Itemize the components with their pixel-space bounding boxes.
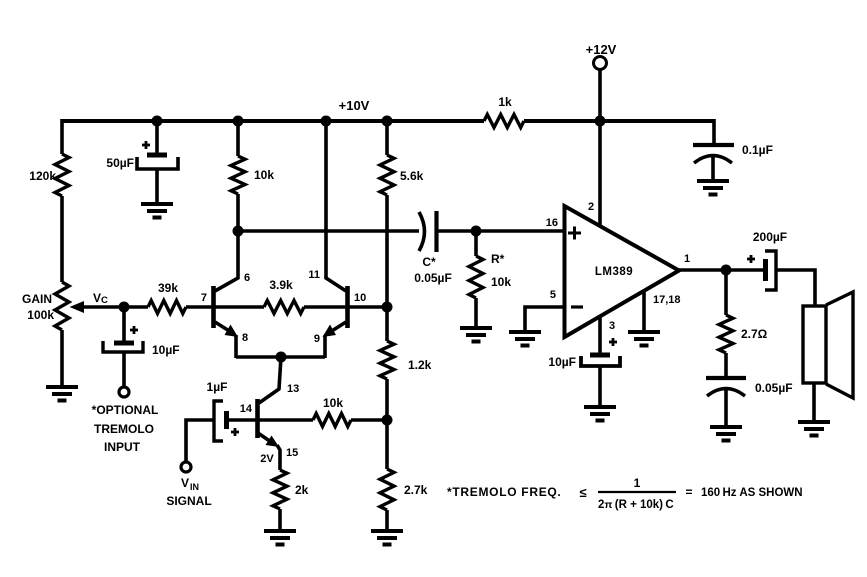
svg-text:+10V: +10V: [339, 98, 370, 113]
svg-text:0.05µF: 0.05µF: [755, 381, 793, 395]
svg-text:*TREMOLO FREQ.: *TREMOLO FREQ.: [447, 485, 561, 499]
svg-text:10k: 10k: [323, 396, 343, 410]
svg-text:2k: 2k: [295, 483, 309, 497]
svg-text:6: 6: [244, 272, 250, 284]
wire node to Q3 collector: [259, 357, 281, 403]
capacitor 1uF: [207, 380, 239, 441]
svg-text:50µF: 50µF: [106, 156, 134, 170]
node Q2 base / 5.6k-1.2k junction: [382, 302, 393, 313]
label pin 10: [354, 292, 366, 304]
wire Q1 base to 3.9k: [215, 305, 264, 309]
node rail/5.6k: [382, 116, 393, 127]
label INPUT: [104, 440, 141, 454]
resistor 1k: [484, 95, 524, 128]
node VC: [93, 291, 130, 313]
capacitor 0.05uF (zobel): [706, 378, 793, 396]
label pin 13: [287, 383, 299, 395]
svg-text:39k: 39k: [158, 281, 178, 295]
svg-text:15: 15: [286, 447, 298, 459]
svg-text:5: 5: [550, 289, 556, 301]
svg-text:13: 13: [287, 383, 299, 395]
svg-text:2V: 2V: [260, 453, 274, 465]
wire +10V top rail left segment: [62, 119, 484, 123]
wire top rail right segment: [524, 119, 714, 123]
svg-text:3: 3: [609, 320, 615, 332]
wire pin 3: [598, 316, 602, 353]
wire 10k to node: [236, 194, 240, 231]
wire 5.6k to base node: [385, 195, 389, 307]
label pin 2: [588, 201, 594, 213]
svg-text:*OPTIONAL: *OPTIONAL: [92, 403, 159, 417]
label pin 9: [314, 333, 320, 345]
node rail/Q2 collector: [321, 116, 332, 127]
label pin 7: [201, 292, 207, 304]
label pin 17,18: [653, 294, 681, 306]
svg-text:SIGNAL: SIGNAL: [166, 494, 211, 508]
wire node to pin 16: [476, 229, 564, 233]
capacitor 50uF: [106, 141, 178, 170]
svg-text:TREMOLO: TREMOLO: [94, 422, 154, 436]
label TREMOLO: [94, 422, 154, 436]
label *OPTIONAL: [92, 403, 159, 417]
capacitor 0.1uF: [693, 143, 773, 163]
node 10k/C* junction: [233, 226, 244, 237]
ground 2.7k: [371, 531, 403, 545]
transistor Q3 emitter: [258, 433, 280, 470]
wire Q2 collector: [326, 121, 346, 291]
ground 50uF: [141, 204, 173, 218]
resistor 5.6k: [380, 155, 424, 195]
svg-text:8: 8: [242, 332, 248, 344]
resistor 2.7k: [380, 469, 428, 510]
svg-text:LM389: LM389: [595, 266, 633, 278]
transistor Q2 emitter: [323, 322, 347, 358]
wire 0.1uF to ground: [711, 155, 715, 180]
node rail/10k: [233, 116, 244, 127]
wire 200uF to speaker: [776, 270, 815, 306]
wire 120k to pot: [60, 196, 64, 282]
svg-text:C: C: [101, 295, 108, 306]
wire 3.9k to Q2 base: [304, 305, 348, 309]
svg-text:C*: C*: [422, 255, 436, 269]
svg-text:=: =: [685, 485, 692, 499]
wire speaker to ground: [812, 383, 816, 420]
wire rail to 120k: [60, 119, 64, 154]
wire 2k to ground: [278, 509, 282, 529]
svg-text:2.7k: 2.7k: [404, 483, 428, 497]
capacitor 200uF: [747, 230, 787, 290]
wire 10uF to ground: [598, 366, 602, 405]
svg-text:1.2k: 1.2k: [408, 358, 432, 372]
wire Q1 collector: [215, 231, 238, 291]
node 1.2k/2.7k junction: [382, 415, 393, 426]
label 2V: [260, 453, 274, 465]
svg-text:0.05µF: 0.05µF: [414, 271, 452, 285]
label VIN: [181, 476, 199, 492]
wire VC to 10uF: [122, 307, 126, 341]
wire 0.05uF to ground: [724, 388, 728, 425]
wire 2.7k to ground: [385, 510, 389, 529]
wire pin 5 to ground: [525, 307, 564, 330]
terminal tremolo input: [119, 387, 129, 397]
ground 2k: [264, 531, 296, 545]
wire emitter join: [236, 355, 325, 359]
resistor 10k (base): [313, 396, 351, 427]
svg-text:GAIN: GAIN: [22, 292, 52, 306]
resistor 2k: [273, 470, 309, 509]
svg-text:+12V: +12V: [586, 42, 617, 57]
terminal +12V: [586, 42, 617, 70]
svg-text:11: 11: [308, 269, 320, 281]
svg-text:1: 1: [634, 476, 641, 490]
label pin 16: [546, 217, 558, 229]
ground 0.05uF: [710, 427, 742, 441]
wire 10k to node: [351, 418, 387, 422]
resistor 2.7ohm: [719, 315, 768, 353]
terminal VIN: [181, 462, 191, 472]
resistor 1.2k: [380, 341, 432, 379]
svg-text:7: 7: [201, 292, 207, 304]
node emitter join: [276, 352, 287, 363]
wire 39k to Q1 base: [186, 305, 212, 309]
wire 1.2k to node: [385, 379, 389, 420]
svg-text:0.1µF: 0.1µF: [742, 143, 773, 157]
svg-text:9: 9: [314, 333, 320, 345]
label SIGNAL: [166, 494, 211, 508]
wire node to C* coupling: [238, 229, 419, 233]
wire 2.7ohm to 0.05uF: [724, 353, 728, 376]
svg-text:200µF: 200µF: [753, 230, 787, 244]
node rail/50uF: [152, 116, 163, 127]
label pin 14: [240, 403, 253, 415]
label pin 11: [308, 269, 320, 281]
svg-text:14: 14: [240, 403, 253, 415]
wire 1uF to Q3 base: [229, 418, 256, 422]
svg-text:R*: R*: [491, 252, 505, 266]
label pin 15: [286, 447, 298, 459]
transistor Q2 bar: [345, 286, 350, 328]
node output: [721, 265, 732, 276]
svg-text:2.7Ω: 2.7Ω: [741, 327, 768, 341]
wire +12V to rail and op-amp pin 2: [598, 70, 602, 226]
svg-text:10µF: 10µF: [548, 355, 576, 369]
label pin 1: [684, 253, 690, 265]
ground pin 17,18: [628, 332, 660, 346]
resistor 39k: [148, 281, 186, 314]
svg-text:IN: IN: [190, 482, 199, 492]
svg-text:1µF: 1µF: [207, 380, 228, 394]
svg-text:INPUT: INPUT: [104, 440, 141, 454]
svg-text:5.6k: 5.6k: [400, 169, 424, 183]
wire C* to node: [437, 229, 476, 233]
ground pin 5: [509, 332, 541, 346]
wire pot to ground: [60, 330, 64, 385]
wire output pin 1: [679, 268, 764, 272]
capacitor 10uF (bypass): [548, 338, 620, 369]
speaker: [803, 292, 853, 398]
resistor 3.9k: [264, 278, 304, 314]
pot wiper arrow: [70, 301, 125, 313]
wire VC to 39k: [124, 305, 148, 309]
wire 50uF to ground: [155, 169, 159, 202]
ground R*: [460, 328, 492, 342]
label pin 5: [550, 289, 556, 301]
label +10V: [339, 98, 370, 113]
capacitor 10uF (tremolo): [103, 326, 180, 357]
svg-text:10k: 10k: [491, 275, 511, 289]
svg-text:16: 16: [546, 217, 558, 229]
svg-text:V: V: [181, 476, 189, 490]
svg-text:2: 2: [588, 201, 594, 213]
wire VIN to 1uF: [186, 420, 214, 461]
svg-text:160 Hz AS SHOWN: 160 Hz AS SHOWN: [701, 487, 803, 499]
node rail/+12V junction: [595, 116, 606, 127]
transistor Q1 emitter: [215, 322, 238, 358]
svg-text:1: 1: [684, 253, 690, 265]
svg-text:V: V: [93, 291, 101, 305]
wire base node to 1.2k: [385, 307, 389, 341]
svg-text:10k: 10k: [254, 168, 274, 182]
wire output to 2.7ohm: [724, 270, 728, 315]
ground speaker: [798, 422, 830, 436]
op-amp LM389 triangle: [565, 206, 680, 337]
svg-text:100k: 100k: [27, 308, 54, 322]
transistor Q3 bar: [255, 399, 260, 438]
node C*/R*/pin16: [471, 226, 482, 237]
ground pot: [46, 387, 78, 401]
wire 10uF to terminal: [122, 352, 126, 386]
label pin 6: [244, 272, 250, 284]
ground 10uF: [584, 407, 616, 421]
wire rail to 0.1uF: [712, 119, 716, 143]
label pin 8: [242, 332, 248, 344]
wire rail to 10k: [236, 119, 240, 156]
wire pin 17,18 to ground: [642, 292, 646, 330]
wire rail to 50uF: [155, 119, 159, 153]
svg-text:≤: ≤: [579, 485, 586, 500]
capacitor C* 0.05uF: [414, 211, 452, 285]
wire rail to 5.6k: [385, 119, 389, 155]
svg-text:1k: 1k: [498, 95, 512, 109]
resistor 120k: [29, 154, 69, 196]
potentiometer GAIN 100k: [22, 282, 69, 330]
wire R* to ground: [474, 298, 478, 326]
svg-text:10: 10: [354, 292, 366, 304]
label pin 3: [609, 320, 615, 332]
resistor 10k (bias): [231, 156, 274, 194]
ground 0.1uF: [697, 181, 729, 195]
svg-text:3.9k: 3.9k: [269, 278, 293, 292]
wire node to 2.7k: [385, 420, 389, 469]
wire Q2 base to node: [348, 305, 387, 309]
formula tremolo frequency: [447, 476, 803, 511]
svg-text:120k: 120k: [29, 169, 56, 183]
svg-text:2π (R + 10k) C: 2π (R + 10k) C: [598, 499, 674, 511]
resistor R* 10k: [469, 231, 511, 298]
wire Q3 base to 10k: [259, 418, 313, 422]
svg-text:10µF: 10µF: [152, 343, 180, 357]
transistor Q1 bar: [211, 286, 216, 328]
svg-text:17,18: 17,18: [653, 294, 681, 306]
